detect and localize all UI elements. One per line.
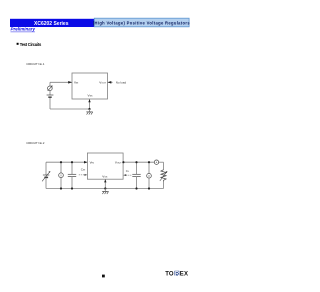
svg-text:CIN: CIN bbox=[81, 167, 86, 171]
wire VSS to rail circuit 1 bbox=[89, 99, 91, 109]
svg-text:CIRCUIT No.1: CIRCUIT No.1 bbox=[26, 62, 45, 66]
junction node top M2 bbox=[148, 161, 150, 163]
wire battery down circuit 1 bbox=[49, 98, 51, 109]
svg-text:VOUT: VOUT bbox=[115, 160, 122, 164]
header light blue title box bbox=[93, 18, 190, 27]
junction node circuit 1 bbox=[88, 108, 90, 110]
junction node top CL bbox=[135, 161, 137, 163]
wire source top circuit 1 bbox=[49, 82, 51, 86]
junction node bottom CIN bbox=[71, 187, 73, 189]
section heading Test Circuits bbox=[17, 42, 42, 47]
voltmeter M2 bbox=[147, 173, 152, 178]
svg-text:CL: CL bbox=[126, 169, 130, 173]
leader arrow CIN to U2 bbox=[79, 174, 88, 176]
Preliminary label bbox=[11, 27, 36, 32]
wire ammeter to corner circuit 2 bbox=[159, 161, 164, 163]
svg-text:XC6202 Series: XC6202 Series bbox=[34, 21, 69, 27]
ground GND2 bbox=[102, 189, 108, 195]
battery B1 bbox=[47, 95, 54, 97]
svg-text:EX: EX bbox=[180, 271, 188, 277]
circuit 1 caption CIRCUIT No.1 bbox=[26, 62, 45, 66]
wire voltmeter branch top left circuit 2 bbox=[60, 162, 62, 173]
svg-text:(High Voltage) Positive Voltag: (High Voltage) Positive Voltage Regulato… bbox=[93, 20, 190, 25]
svg-text:V: V bbox=[60, 173, 62, 177]
svg-text:TO: TO bbox=[165, 271, 174, 277]
svg-text:A: A bbox=[156, 160, 158, 164]
wire below RL circuit 2 bbox=[163, 182, 165, 189]
ground GND1 bbox=[86, 109, 92, 115]
wire voltmeter branch bottom right circuit 2 bbox=[148, 178, 150, 189]
wire input to VIN circuit 1 bbox=[50, 81, 72, 83]
leader arrow CL to U2 bbox=[123, 174, 131, 176]
footer page number bbox=[102, 275, 105, 278]
svg-text:VIN: VIN bbox=[90, 160, 95, 164]
pin arrow VSS U1 bbox=[88, 99, 90, 102]
wire CIN branch top circuit 2 bbox=[71, 162, 73, 174]
footer TOREX logo bbox=[165, 271, 188, 278]
pin arrow into VIN U1 bbox=[68, 81, 72, 84]
wire VSS to rail circuit 2 bbox=[104, 179, 106, 188]
wire source branch bottom circuit 2 bbox=[45, 178, 47, 188]
junction node top CIN bbox=[71, 161, 73, 163]
variable supply circle V1 bbox=[48, 85, 53, 91]
svg-text:CIRCUIT No.2: CIRCUIT No.2 bbox=[26, 141, 45, 145]
capacitor CIN bbox=[68, 174, 76, 176]
wire source branch top circuit 2 bbox=[45, 162, 47, 175]
IC U2 box (regulator) circuit 2 bbox=[87, 153, 123, 179]
wire bottom rail circuit 2 bbox=[46, 188, 164, 190]
junction node VSS rail circuit 2 bbox=[104, 187, 106, 189]
pin arrow VSS U2 bbox=[104, 179, 106, 182]
junction node VOUT pin U2 bbox=[122, 161, 124, 163]
header dark blue banner bbox=[10, 19, 94, 27]
ammeter M3 bbox=[154, 160, 158, 164]
svg-text:VSS: VSS bbox=[102, 175, 108, 179]
junction node top M1 bbox=[60, 161, 62, 163]
wire top rail left circuit 2 bbox=[46, 161, 87, 163]
svg-text:VIN: VIN bbox=[74, 80, 79, 84]
wire voltmeter branch bottom left circuit 2 bbox=[60, 178, 62, 189]
circuit 2 caption CIRCUIT No.2 bbox=[26, 141, 45, 145]
wire bottom rail circuit 1 bbox=[50, 108, 90, 110]
svg-text:VSS: VSS bbox=[88, 93, 94, 97]
wire circle to battery circuit 1 bbox=[49, 91, 51, 95]
junction node bottom M1 bbox=[60, 187, 62, 189]
junction node bottom CL bbox=[135, 187, 137, 189]
wire CIN branch bottom circuit 2 bbox=[71, 177, 73, 189]
capacitor CL bbox=[132, 174, 140, 176]
svg-text:No load: No load bbox=[116, 80, 127, 84]
resistor RL (variable load) bbox=[160, 170, 168, 182]
wire CL branch bottom circuit 2 bbox=[136, 177, 138, 189]
svg-text:V: V bbox=[148, 174, 150, 178]
variable battery V2 bbox=[42, 171, 50, 181]
svg-text:Test Circuits: Test Circuits bbox=[20, 42, 42, 47]
junction node bottom M2 bbox=[148, 187, 150, 189]
wire CL branch top circuit 2 bbox=[136, 162, 138, 174]
wire voltmeter branch top right circuit 2 bbox=[148, 162, 150, 173]
wire VOUT stub circuit 1 bbox=[108, 81, 113, 83]
pin arrow VOUT U1 bbox=[108, 81, 112, 84]
voltmeter M1 bbox=[59, 173, 64, 178]
wire right drop circuit 2 bbox=[163, 162, 165, 170]
IC U1 box (regulator) circuit 1 bbox=[72, 73, 108, 99]
wire top rail right circuit 2 bbox=[123, 161, 154, 163]
svg-text:VOUT: VOUT bbox=[99, 80, 106, 84]
svg-text:Preliminary: Preliminary bbox=[11, 27, 36, 32]
pin arrow into VIN U2 bbox=[84, 161, 87, 164]
